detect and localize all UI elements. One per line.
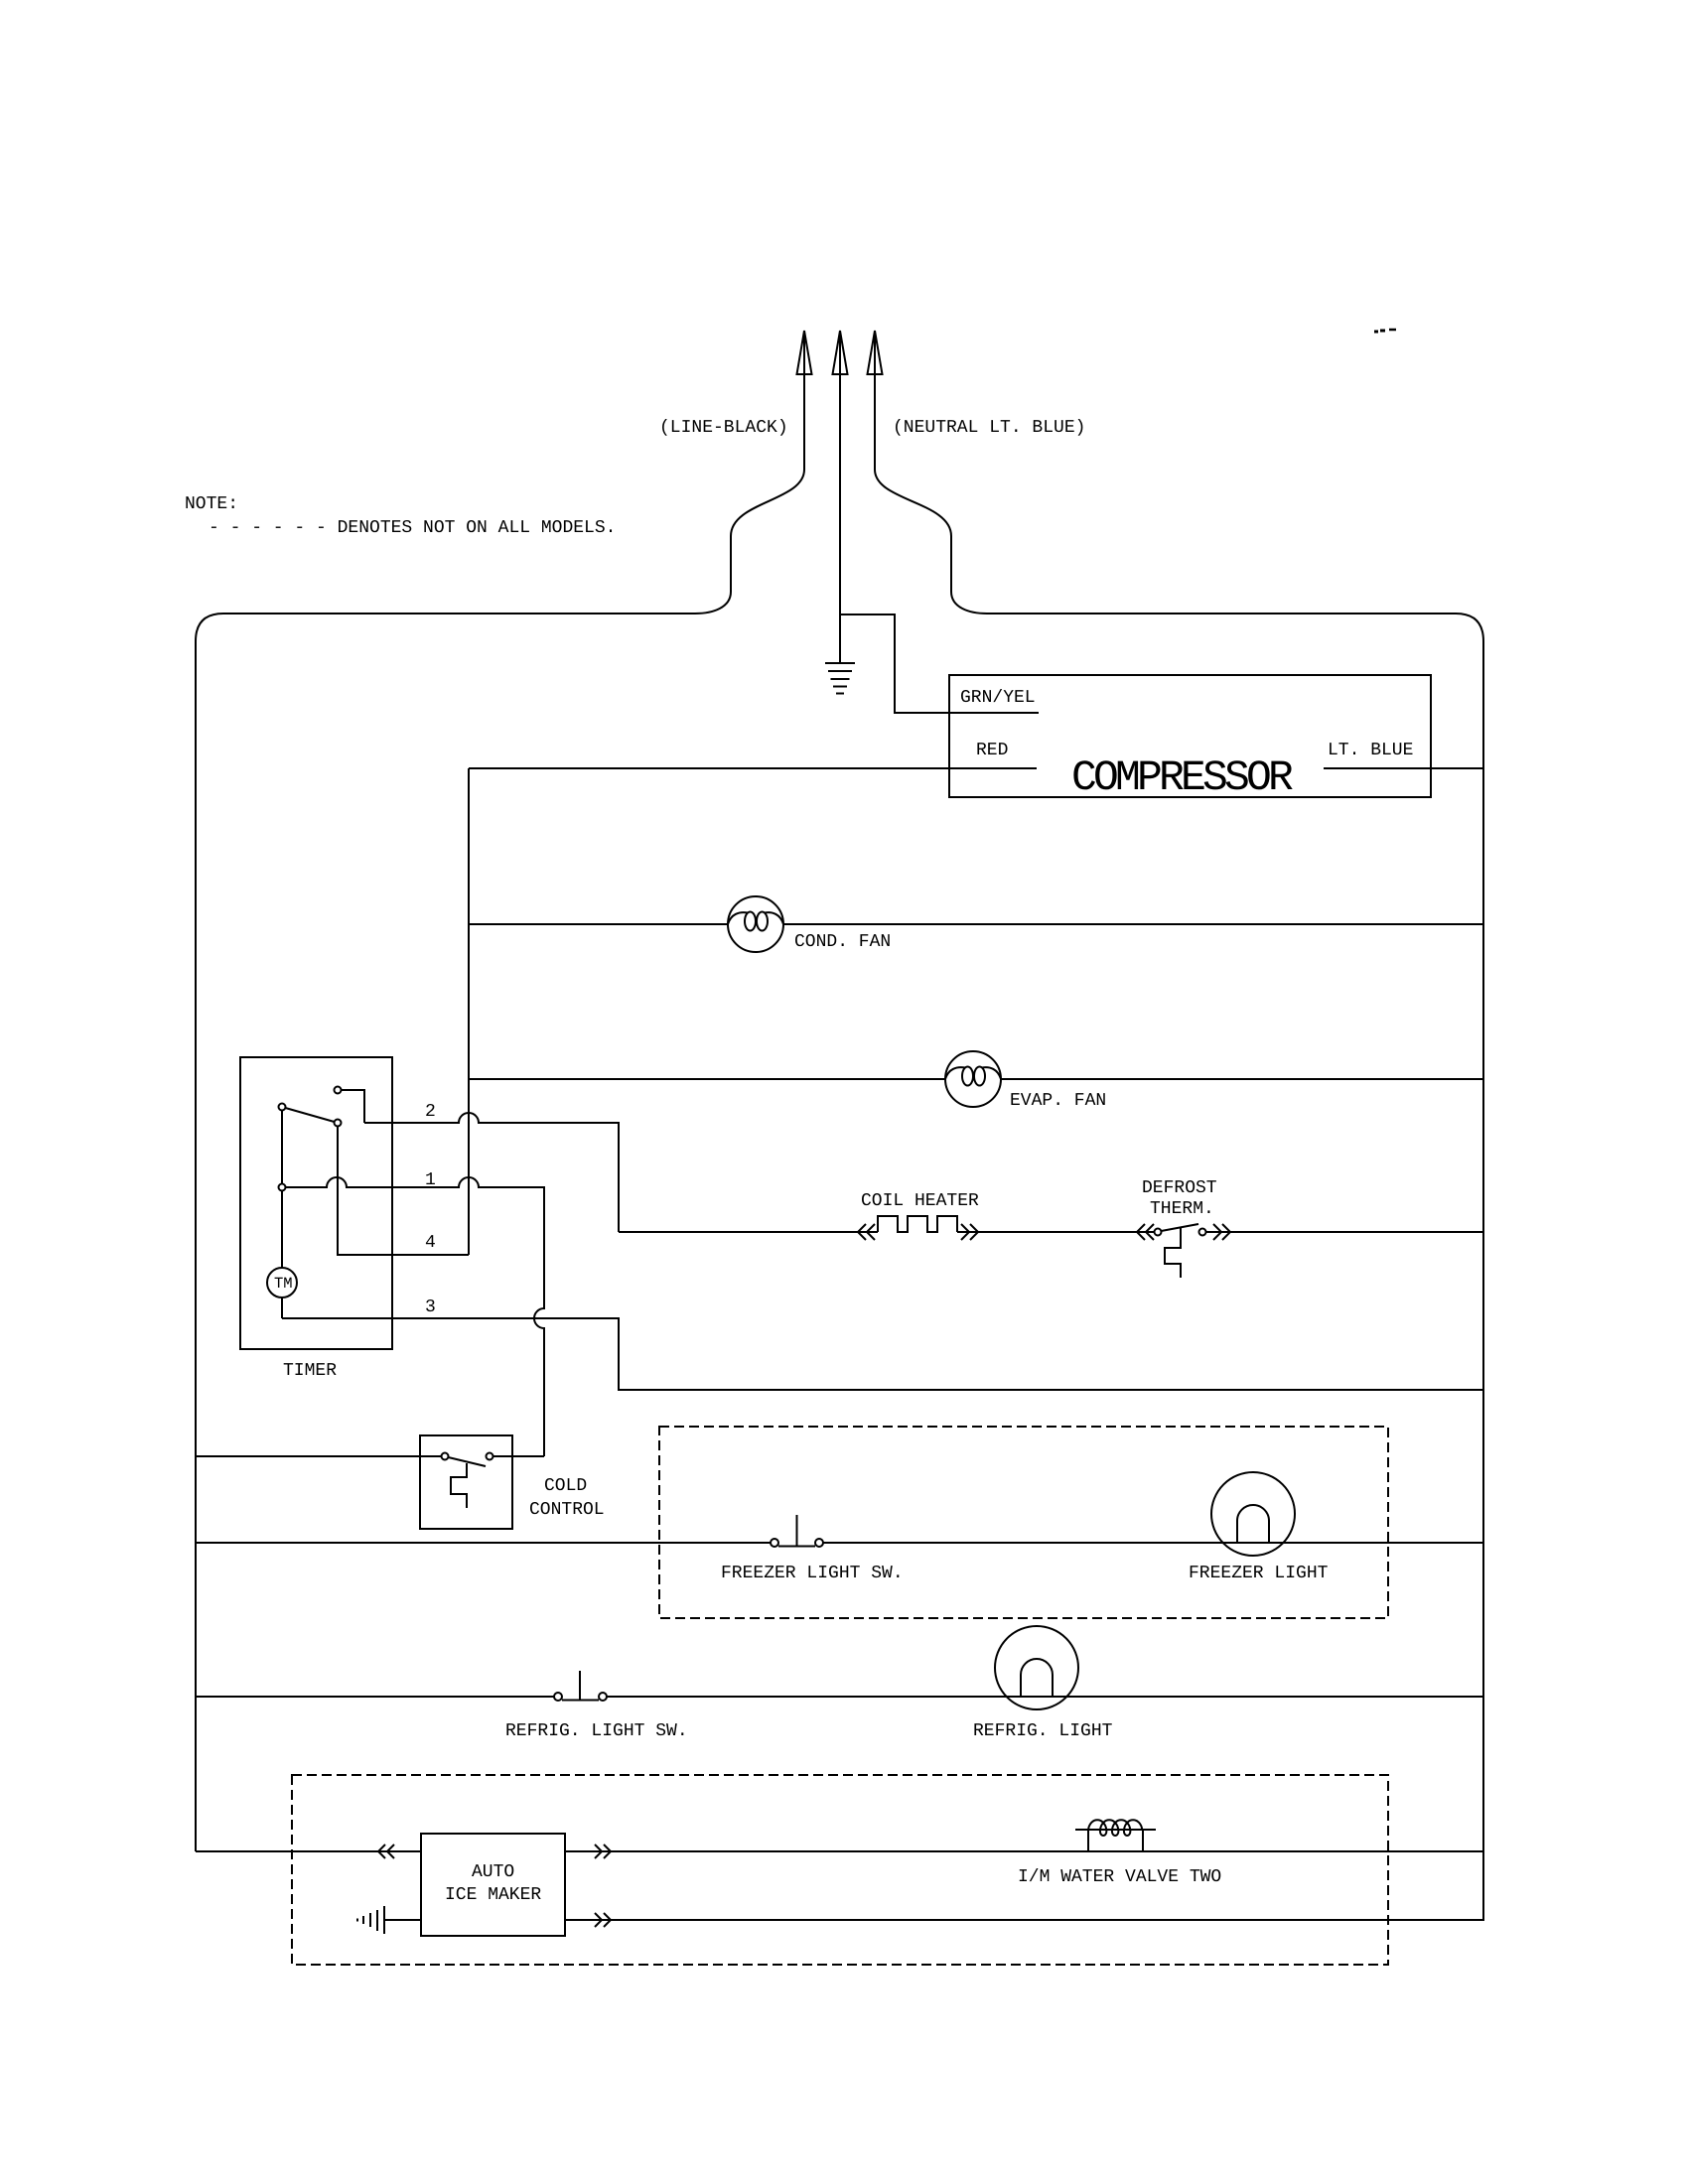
svg-text:GRN/YEL: GRN/YEL bbox=[960, 688, 1036, 708]
svg-text:AUTO: AUTO bbox=[472, 1862, 514, 1882]
svg-text:COMPRESSOR: COMPRESSOR bbox=[1071, 753, 1293, 802]
svg-text:COLD: COLD bbox=[544, 1476, 587, 1496]
svg-text:1: 1 bbox=[425, 1170, 436, 1190]
svg-text:REFRIG. LIGHT: REFRIG. LIGHT bbox=[973, 1721, 1113, 1741]
svg-text:2: 2 bbox=[425, 1102, 436, 1122]
svg-text:4: 4 bbox=[425, 1233, 436, 1253]
svg-text:CONTROL: CONTROL bbox=[529, 1500, 605, 1520]
svg-text:NOTE:: NOTE: bbox=[185, 494, 238, 514]
svg-text:EVAP. FAN: EVAP. FAN bbox=[1010, 1091, 1106, 1111]
svg-text:LT. BLUE: LT. BLUE bbox=[1328, 741, 1413, 760]
svg-text:ICE MAKER: ICE MAKER bbox=[445, 1885, 541, 1905]
svg-text:THERM.: THERM. bbox=[1150, 1199, 1214, 1219]
svg-text:TM: TM bbox=[274, 1275, 293, 1293]
svg-text:COIL HEATER: COIL HEATER bbox=[861, 1191, 979, 1211]
svg-text:- - - - - - DENOTES NOT ON ALL: - - - - - - DENOTES NOT ON ALL MODELS. bbox=[209, 518, 616, 538]
svg-text:I/M WATER VALVE TWO: I/M WATER VALVE TWO bbox=[1018, 1867, 1221, 1887]
svg-text:REFRIG. LIGHT SW.: REFRIG. LIGHT SW. bbox=[505, 1721, 688, 1741]
svg-text:3: 3 bbox=[425, 1297, 436, 1317]
svg-text:(NEUTRAL LT. BLUE): (NEUTRAL LT. BLUE) bbox=[893, 418, 1085, 438]
svg-text:DEFROST: DEFROST bbox=[1142, 1178, 1217, 1198]
svg-text:COND. FAN: COND. FAN bbox=[794, 932, 891, 952]
svg-text:RED: RED bbox=[976, 741, 1008, 760]
svg-text:FREEZER LIGHT: FREEZER LIGHT bbox=[1189, 1564, 1329, 1583]
svg-text:(LINE-BLACK): (LINE-BLACK) bbox=[659, 418, 788, 438]
svg-text:TIMER: TIMER bbox=[283, 1361, 337, 1381]
svg-text:FREEZER LIGHT SW.: FREEZER LIGHT SW. bbox=[721, 1564, 904, 1583]
